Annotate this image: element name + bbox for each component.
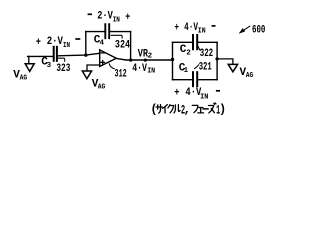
svg-text:IN: IN [113,17,120,25]
capacitor C3 plates [54,47,57,61]
op-amp 312 triangle [100,50,117,67]
svg-text:4: 4 [100,40,105,48]
op-amp plus sign [101,61,105,65]
ground V_AG right [228,64,237,71]
capacitor C1 plates [193,72,197,86]
leader for 322 [198,46,200,51]
node: VR2 dot [144,59,147,62]
katakana sa [156,105,162,114]
wire: op-amp output to C-network [116,58,172,60]
wire: network top branch [173,41,218,43]
svg-text:2·V: 2·V [47,36,64,48]
katakana i [163,105,168,113]
label V_AG right [240,67,254,80]
label C2 [180,44,192,57]
capacitor C2 plates [193,35,197,49]
katakana long vowel mark [203,108,208,110]
svg-text:IN: IN [200,94,208,102]
svg-text:322: 322 [200,48,214,60]
svg-text:AG: AG [246,72,254,80]
leader for 312 [109,64,114,69]
label +4.VIN- (top, across C2) [175,22,216,36]
katakana ku [168,105,174,113]
svg-text:+: + [125,12,130,24]
katakana small e [198,108,204,113]
svg-text:4·V: 4·V [184,22,198,34]
wire: network bottom branch [173,79,218,81]
svg-text:321: 321 [199,61,212,73]
op-amp minus sign [101,52,104,54]
svg-text:2: 2 [148,53,153,61]
svg-text:+: + [175,22,180,34]
node: network left dot [171,58,174,61]
svg-text:3: 3 [47,62,52,70]
capacitor C4 plates [105,24,109,38]
label +2.VIN- (across C3) [36,36,81,50]
label 4.VIN (output) [132,63,155,76]
svg-text:+: + [174,87,180,99]
wire: feedback left vertical [85,32,87,55]
svg-text:4·V: 4·V [132,63,147,75]
wire: feedback right vertical [130,32,132,60]
svg-text:IN: IN [198,28,206,36]
wire: feedback top horizontal [86,31,131,33]
label -2.VIN+ (across C4) [88,11,131,25]
label V_AG at op-amp [92,79,106,92]
katakana fu [192,105,198,112]
svg-text:323: 323 [56,63,70,75]
node: network right dot [215,57,218,60]
svg-text:(: ( [150,103,157,117]
katakana ru [174,105,180,113]
node: feedback tap dot [129,59,132,62]
svg-text:1: 1 [184,67,189,75]
label VR2 (output node) [138,49,153,61]
label C4 [94,35,105,48]
katakana zu (su + dakuten) [209,103,216,113]
leader for 321 [195,65,199,69]
svg-text:AG: AG [20,75,28,83]
svg-text:2·V: 2·V [97,11,113,23]
arrow for reference 600 [239,26,249,33]
label C1 [179,63,189,76]
svg-text:): ) [219,103,226,117]
wire: network right vertical [216,42,218,79]
ground V_AG far left [25,56,34,71]
ground V_AG at op-amp [82,71,91,79]
svg-text:324: 324 [115,39,130,51]
wire: network left vertical [172,42,174,79]
svg-text:,: , [184,103,191,117]
caption (cycle 2, phase 1) [150,103,226,118]
svg-text:+: + [36,37,42,49]
wire: to right ground [217,59,233,64]
leader for 324 [111,35,122,38]
svg-text:2: 2 [186,49,191,57]
wire: left input to C3 [28,55,53,57]
svg-text:AG: AG [98,83,106,91]
label C3 [41,57,51,71]
wire: C3 to summing node to op-amp inverting input [58,53,100,56]
label +4.VIN- (bottom, across C1) [174,87,220,102]
wire: op-amp noninverting input to ground [87,65,100,71]
label V_AG far left [13,70,27,83]
svg-text:IN: IN [147,68,155,76]
svg-text:600: 600 [252,24,265,36]
svg-text:IN: IN [63,42,70,50]
leader for 323 [58,58,64,61]
node: summing junction dot [84,53,87,56]
svg-text:312: 312 [115,69,127,81]
